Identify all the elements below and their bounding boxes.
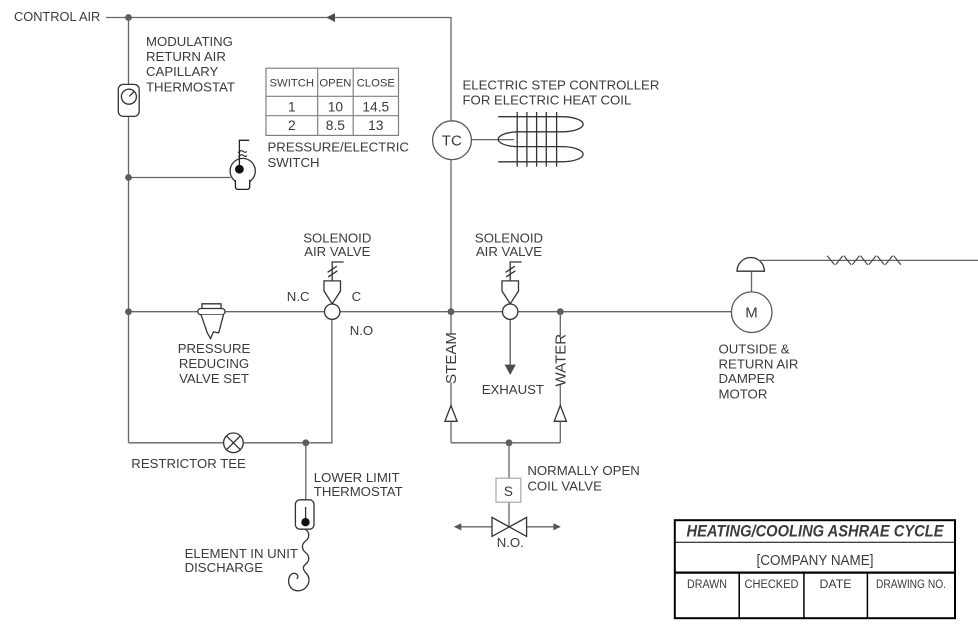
svg-text:10: 10 [328,99,344,114]
solenoid air valve V2 [502,262,522,319]
svg-text:N.O.: N.O. [497,535,524,550]
svg-text:S: S [504,484,513,499]
wire: bottom run steam-water [451,442,560,444]
svg-text:AIR VALVE: AIR VALVE [476,244,542,259]
svg-text:13: 13 [368,118,384,133]
wire: water to bottom run [559,421,561,443]
node: steam/TC junction [448,308,455,315]
svg-text:THERMOSTAT: THERMOSTAT [146,79,235,94]
PE settings table [266,68,399,135]
svg-text:M: M [745,305,758,322]
svg-text:LOWER LIMIT: LOWER LIMIT [314,470,400,485]
title block [675,520,955,618]
damper blade hatch marks [827,256,901,265]
svg-text:N.O: N.O [350,323,373,338]
svg-text:THERMOSTAT: THERMOSTAT [314,484,403,499]
svg-text:WATER: WATER [553,334,570,387]
svg-text:RETURN AIR: RETURN AIR [719,356,799,371]
wire: branch to lower limit thermostat [305,443,307,500]
wire: top run from node A to TC riser [129,18,452,122]
svg-text:DATE: DATE [820,577,852,591]
svg-text:DISCHARGE: DISCHARGE [185,560,264,575]
PE switch PE1 (pressure/electric switch) [230,140,255,189]
svg-text:1: 1 [288,99,296,114]
svg-text:VALVE SET: VALVE SET [179,371,249,386]
svg-text:PRESSURE: PRESSURE [178,341,251,356]
svg-text:OPEN: OPEN [319,78,351,90]
svg-text:EXHAUST: EXHAUST [482,382,544,397]
svg-text:TC: TC [442,133,462,150]
svg-text:CLOSE: CLOSE [357,78,396,90]
svg-text:ELEMENT IN UNIT: ELEMENT IN UNIT [185,546,298,561]
node A: control air junction [125,14,132,21]
svg-text:CAPILLARY: CAPILLARY [146,64,219,79]
wire: S-box to NO coil valve [508,502,510,527]
svg-text:8.5: 8.5 [326,118,346,133]
controller TC [433,121,472,160]
wire: main pneumatic header [129,311,732,313]
NO coil valve (bowtie) [454,517,561,536]
wire: branch to PE switch [129,177,231,179]
svg-text:CONTROL AIR: CONTROL AIR [14,9,100,24]
svg-text:CHECKED: CHECKED [745,577,799,591]
node: PE branch junction [125,174,132,181]
wire: control air lead [106,17,129,19]
wire: TC riser lower (TC to header) [450,160,452,312]
svg-text:FOR ELECTRIC HEAT COIL: FOR ELECTRIC HEAT COIL [463,93,632,108]
node: lower-limit branch junction [302,439,309,446]
node: header-left junction [125,308,132,315]
thermostat T-RA (modulating return air capillary) [118,84,139,116]
damper motor M1 [731,292,772,333]
svg-text:SWITCH: SWITCH [268,155,320,170]
svg-text:MOTOR: MOTOR [719,386,768,401]
svg-text:C: C [352,289,362,304]
actuator dome [737,258,764,272]
svg-text:NORMALLY OPEN: NORMALLY OPEN [527,463,639,478]
pressure reducing valve PRV [198,304,225,339]
wire: motor stub to actuator dome [751,271,753,292]
svg-text:2: 2 [288,118,296,133]
table data text [288,99,390,133]
table header text [270,78,396,90]
exhaust arrowhead [505,365,516,375]
node: coil-valve branch junction [506,439,513,446]
svg-text:14.5: 14.5 [362,99,389,114]
svg-text:PRESSURE/ELECTRIC: PRESSURE/ELECTRIC [268,140,410,155]
wire: steam drop lower [450,383,452,408]
svg-text:DRAWING NO.: DRAWING NO. [876,577,946,591]
wire: steam drop upper [450,312,452,335]
restrictor tee RT [224,433,244,453]
svg-text:MODULATING: MODULATING [146,34,233,49]
check valve on steam line (open arrow) [445,406,457,422]
wire: damper linkage [760,259,978,261]
svg-text:ELECTRIC STEP CONTROLLER: ELECTRIC STEP CONTROLLER [463,78,660,93]
svg-text:SWITCH: SWITCH [270,78,315,90]
lower limit thermostat T-LL [295,500,314,529]
svg-text:STEAM: STEAM [443,332,460,384]
wire: steam to bottom run [450,421,452,443]
svg-text:REDUCING: REDUCING [179,356,249,371]
wire: TC to heat coil [471,139,514,141]
S-box (solenoid pilot) [496,478,521,502]
title block column headers [687,577,946,591]
wire: exhaust stem [509,319,511,365]
solenoid air valve V1 [324,262,344,319]
svg-text:[COMPANY NAME]: [COMPANY NAME] [757,552,874,569]
node: water junction [557,308,564,315]
flow arrow on top wire (points left) [326,13,335,22]
wire: left riser [128,18,130,443]
svg-text:COIL VALVE: COIL VALVE [527,479,602,494]
svg-text:AIR VALVE: AIR VALVE [304,244,370,259]
wire: water drop lower [559,385,561,408]
svg-text:DAMPER: DAMPER [719,371,775,386]
svg-text:DRAWN: DRAWN [687,577,727,591]
wire: water drop upper [559,312,561,336]
svg-text:RETURN AIR: RETURN AIR [146,49,226,64]
check valve on water line (open arrow) [554,406,566,422]
svg-text:HEATING/COOLING ASHRAE CYCLE: HEATING/COOLING ASHRAE CYCLE [687,522,945,540]
wire: bottom-left run (restrictor line) [129,319,332,443]
svg-text:OUTSIDE &: OUTSIDE & [719,341,790,356]
svg-text:N.C: N.C [287,289,310,304]
wire: branch to S-box [508,443,510,479]
capillary element squiggle (element in unit discharge) [289,529,309,590]
svg-text:RESTRICTOR TEE: RESTRICTOR TEE [131,456,246,471]
heat coil HC (electric heat coil) [498,112,583,167]
